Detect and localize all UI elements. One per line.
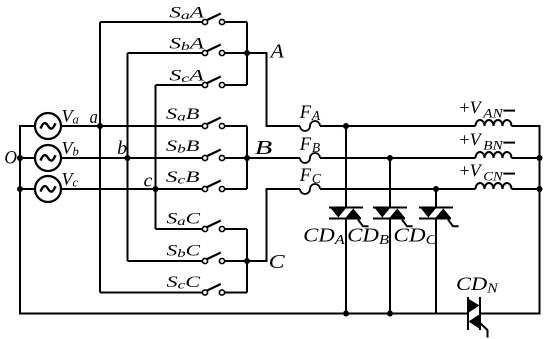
switch SbC (128, 253, 248, 264)
node c (153, 186, 159, 192)
node: CDC tap on line C (433, 186, 439, 192)
label +VBN- (460, 130, 516, 153)
label Vc (62, 169, 79, 190)
svg-text:b: b (117, 138, 127, 159)
label CDC (393, 226, 437, 249)
label SbA (169, 35, 204, 53)
svg-text:Sc​A: Sc​A (169, 67, 204, 85)
node B (244, 155, 250, 161)
node C (244, 258, 250, 264)
label SbC (167, 243, 201, 261)
node: N bus C junction (537, 186, 543, 192)
wire: line A fuse to load (320, 125, 476, 127)
wire: load C to N bus (512, 188, 540, 190)
wire: bottom bus right of CD_N and right N bus up to load A (480, 126, 540, 314)
label node A (269, 41, 285, 63)
crowbar device CDB (373, 158, 413, 314)
label +VAN- (460, 98, 516, 121)
wire: load B to N bus (512, 157, 540, 159)
label ScC (167, 274, 201, 292)
switch SaC (156, 221, 248, 232)
node A (244, 50, 250, 56)
svg-text:Sc​C: Sc​C (167, 274, 201, 292)
wire: line C fuse to load (320, 188, 476, 190)
label SaB (166, 106, 200, 124)
wire: output C collector vertical (246, 229, 248, 293)
label FA (299, 103, 321, 123)
fuse FB (300, 153, 320, 163)
label CDA (303, 226, 345, 249)
label node c (144, 170, 153, 191)
svg-text:+V: +V (460, 161, 483, 181)
node: CDA bus junction (343, 311, 349, 317)
switch SbB (202, 150, 247, 161)
switch SaB (202, 118, 247, 129)
label FC (299, 166, 322, 186)
svg-text:C: C (269, 251, 286, 273)
label node B (255, 137, 272, 159)
switch ScC (100, 284, 247, 295)
fuse FA (300, 121, 320, 131)
label SaC (167, 211, 201, 229)
load VAN coil (476, 120, 512, 126)
svg-text:AN: AN (482, 105, 504, 120)
voltage source Va (35, 113, 61, 139)
wire: output C to fuse FC (247, 189, 300, 261)
wire: phase b line (61, 157, 202, 159)
label FB (299, 135, 321, 155)
svg-text:Sa​A: Sa​A (169, 4, 204, 22)
svg-text:a: a (90, 107, 98, 128)
node: CDB bus junction (387, 311, 393, 317)
svg-text:+V: +V (460, 98, 483, 118)
switch SaA (100, 14, 247, 25)
wire: left source bus from Va terminal down and bottom neutral bus to CD_N (20, 126, 468, 314)
svg-text:A: A (269, 41, 285, 63)
switch ScB (202, 181, 247, 192)
voltage source Vb (35, 145, 61, 171)
label SbB (166, 138, 200, 156)
wire: Vc left terminal to bus (20, 188, 35, 190)
svg-text:Sb​A: Sb​A (169, 35, 204, 53)
load VBN coil (476, 152, 512, 158)
svg-text:Sa​B: Sa​B (166, 106, 200, 124)
label +VCN- (460, 161, 516, 184)
node: CDA tap on line A (343, 123, 349, 129)
wire: output B to fuse FB (247, 157, 300, 159)
wire: output A to fuse FA (247, 53, 300, 126)
label Vb (62, 138, 79, 159)
svg-text:Sb​B: Sb​B (166, 138, 200, 156)
label CDN (456, 274, 499, 296)
node a (97, 123, 103, 129)
switch ScA (156, 77, 248, 88)
wire: phase b feeder vertical (127, 53, 129, 261)
svg-text:Sa​C: Sa​C (167, 211, 201, 229)
load VCN coil (476, 183, 512, 189)
label Va (62, 106, 79, 127)
node: CDB tap on line B (387, 155, 393, 161)
voltage source Vc (35, 176, 61, 202)
svg-text:Sc​B: Sc​B (166, 169, 200, 187)
wire: Vb left terminal to bus (20, 157, 35, 159)
fuse FC (300, 184, 320, 194)
node b (125, 155, 131, 161)
label O (4, 148, 17, 168)
label node b (117, 138, 127, 159)
wire: output B collector vertical (246, 126, 248, 189)
crowbar device CDA (329, 126, 369, 314)
label ScB (166, 169, 200, 187)
crowbar device CDN (468, 297, 488, 338)
wire: phase a line (61, 125, 202, 127)
wire: phase c feeder vertical (155, 85, 157, 229)
svg-text:BN: BN (483, 137, 504, 152)
svg-text:c: c (144, 170, 153, 191)
node O (17, 155, 23, 161)
label ScA (169, 67, 204, 85)
wire: phase c line (61, 188, 202, 190)
switch SbA (128, 45, 248, 56)
crowbar device CDC (419, 189, 459, 314)
wire: output A collector vertical (246, 22, 248, 85)
node: N bus B junction (537, 155, 543, 161)
wire: phase a feeder vertical (99, 22, 101, 293)
svg-text:Sb​C: Sb​C (167, 243, 201, 261)
svg-text:O: O (4, 148, 17, 168)
label node a (90, 107, 98, 128)
label CDB (347, 226, 389, 249)
node: Vc-bus junction (17, 186, 23, 192)
svg-text:B: B (255, 137, 272, 159)
wire: line B fuse to load (320, 157, 476, 159)
svg-text:+V: +V (460, 130, 483, 150)
label node C (269, 251, 286, 273)
label SaA (169, 4, 204, 22)
svg-text:CN: CN (483, 168, 504, 183)
